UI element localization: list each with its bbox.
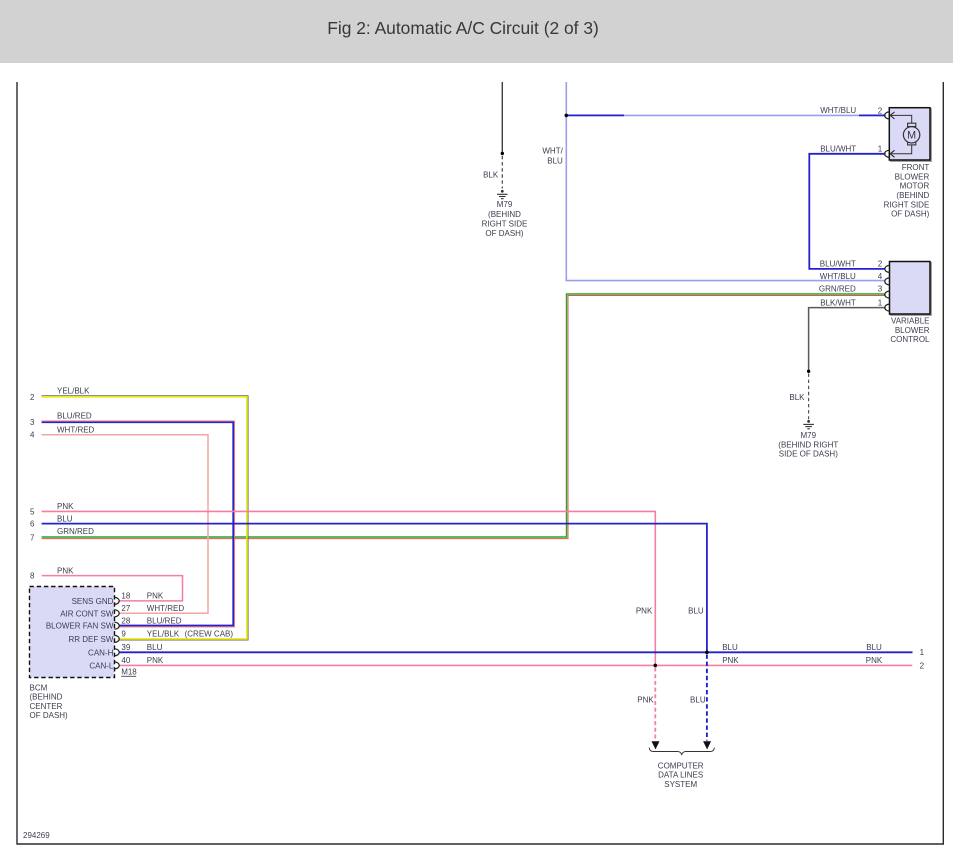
svg-text:BLU/RED: BLU/RED <box>57 412 92 421</box>
svg-text:BLK/WHT: BLK/WHT <box>820 298 856 307</box>
svg-text:M79: M79 <box>801 431 817 440</box>
svg-text:PNK: PNK <box>722 656 739 665</box>
svg-text:BLU: BLU <box>690 696 706 705</box>
svg-text:BLU: BLU <box>547 157 563 166</box>
svg-text:DATA LINES: DATA LINES <box>658 771 703 780</box>
svg-text:28: 28 <box>121 616 130 625</box>
svg-text:MOTOR: MOTOR <box>900 182 930 191</box>
svg-text:3: 3 <box>878 285 883 294</box>
svg-text:COMPUTER: COMPUTER <box>658 761 704 770</box>
svg-text:RIGHT SIDE: RIGHT SIDE <box>884 200 930 209</box>
svg-text:27: 27 <box>121 604 130 613</box>
svg-text:18: 18 <box>121 592 130 601</box>
svg-text:2: 2 <box>30 393 35 402</box>
svg-text:4: 4 <box>878 272 883 281</box>
svg-text:RIGHT SIDE: RIGHT SIDE <box>482 219 528 228</box>
svg-text:7: 7 <box>30 533 35 542</box>
svg-text:FRONT: FRONT <box>902 163 930 172</box>
svg-text:BLU/WHT: BLU/WHT <box>820 145 856 154</box>
svg-text:WHT/RED: WHT/RED <box>147 604 185 613</box>
svg-text:5: 5 <box>30 507 35 516</box>
svg-text:BLU/RED: BLU/RED <box>147 616 182 625</box>
svg-text:WHT/BLU: WHT/BLU <box>820 106 856 115</box>
svg-text:2: 2 <box>878 106 883 115</box>
svg-text:8: 8 <box>30 572 35 581</box>
svg-text:BLU: BLU <box>722 643 738 652</box>
svg-text:WHT/RED: WHT/RED <box>57 425 95 434</box>
svg-text:PNK: PNK <box>636 606 653 615</box>
svg-text:CAN-H: CAN-H <box>88 648 114 657</box>
svg-text:4: 4 <box>30 431 35 440</box>
svg-text:AIR CONT SW: AIR CONT SW <box>60 609 114 618</box>
svg-text:2: 2 <box>920 661 925 670</box>
svg-text:1: 1 <box>878 298 883 307</box>
svg-text:(CREW CAB): (CREW CAB) <box>185 630 234 639</box>
svg-text:VARIABLE: VARIABLE <box>891 316 930 325</box>
svg-text:BCM: BCM <box>30 683 48 692</box>
svg-text:YEL/BLK: YEL/BLK <box>147 630 180 639</box>
svg-text:OF DASH): OF DASH) <box>485 229 524 238</box>
svg-text:BLK: BLK <box>789 393 805 402</box>
svg-text:BLU: BLU <box>866 643 882 652</box>
svg-text:294269: 294269 <box>23 831 50 840</box>
svg-text:2: 2 <box>878 260 883 269</box>
svg-text:BLOWER FAN SW: BLOWER FAN SW <box>46 622 114 631</box>
svg-text:PNK: PNK <box>866 656 883 665</box>
svg-text:CENTER: CENTER <box>30 702 63 711</box>
svg-text:WHT/: WHT/ <box>542 146 563 155</box>
svg-text:PNK: PNK <box>147 592 164 601</box>
svg-text:CONTROL: CONTROL <box>890 335 930 344</box>
svg-text:GRN/RED: GRN/RED <box>57 527 94 536</box>
svg-text:RR DEF SW: RR DEF SW <box>69 635 114 644</box>
svg-text:(BEHIND: (BEHIND <box>896 191 929 200</box>
svg-text:BLK: BLK <box>483 170 499 179</box>
svg-text:6: 6 <box>30 520 35 529</box>
svg-text:M79: M79 <box>497 200 513 209</box>
svg-text:PNK: PNK <box>637 696 654 705</box>
svg-text:OF DASH): OF DASH) <box>30 711 69 720</box>
svg-text:BLU: BLU <box>147 643 163 652</box>
svg-text:WHT/BLU: WHT/BLU <box>820 272 856 281</box>
svg-text:SYSTEM: SYSTEM <box>664 780 697 789</box>
svg-text:40: 40 <box>121 656 130 665</box>
svg-text:BLU: BLU <box>57 514 73 523</box>
svg-text:1: 1 <box>920 648 925 657</box>
svg-text:(BEHIND: (BEHIND <box>488 210 521 219</box>
svg-text:39: 39 <box>121 643 130 652</box>
svg-text:3: 3 <box>30 418 35 427</box>
svg-text:BLOWER: BLOWER <box>895 172 930 181</box>
svg-text:1: 1 <box>878 145 883 154</box>
svg-text:PNK: PNK <box>57 502 74 511</box>
svg-text:PNK: PNK <box>57 566 74 575</box>
svg-text:BLU: BLU <box>688 606 704 615</box>
svg-text:PNK: PNK <box>147 656 164 665</box>
svg-text:BLU/WHT: BLU/WHT <box>820 260 856 269</box>
svg-text:(BEHIND: (BEHIND <box>30 693 63 702</box>
svg-text:9: 9 <box>121 630 126 639</box>
svg-text:SENS GND: SENS GND <box>72 597 114 606</box>
svg-text:BLOWER: BLOWER <box>895 326 930 335</box>
svg-text:(BEHIND RIGHT: (BEHIND RIGHT <box>778 440 838 449</box>
svg-text:M18: M18 <box>121 668 137 677</box>
svg-text:OF DASH): OF DASH) <box>891 210 930 219</box>
svg-text:YEL/BLK: YEL/BLK <box>57 387 90 396</box>
svg-text:M: M <box>907 130 916 142</box>
svg-text:GRN/RED: GRN/RED <box>819 285 856 294</box>
svg-text:SIDE OF DASH): SIDE OF DASH) <box>779 450 838 459</box>
svg-text:CAN-L: CAN-L <box>89 661 114 670</box>
